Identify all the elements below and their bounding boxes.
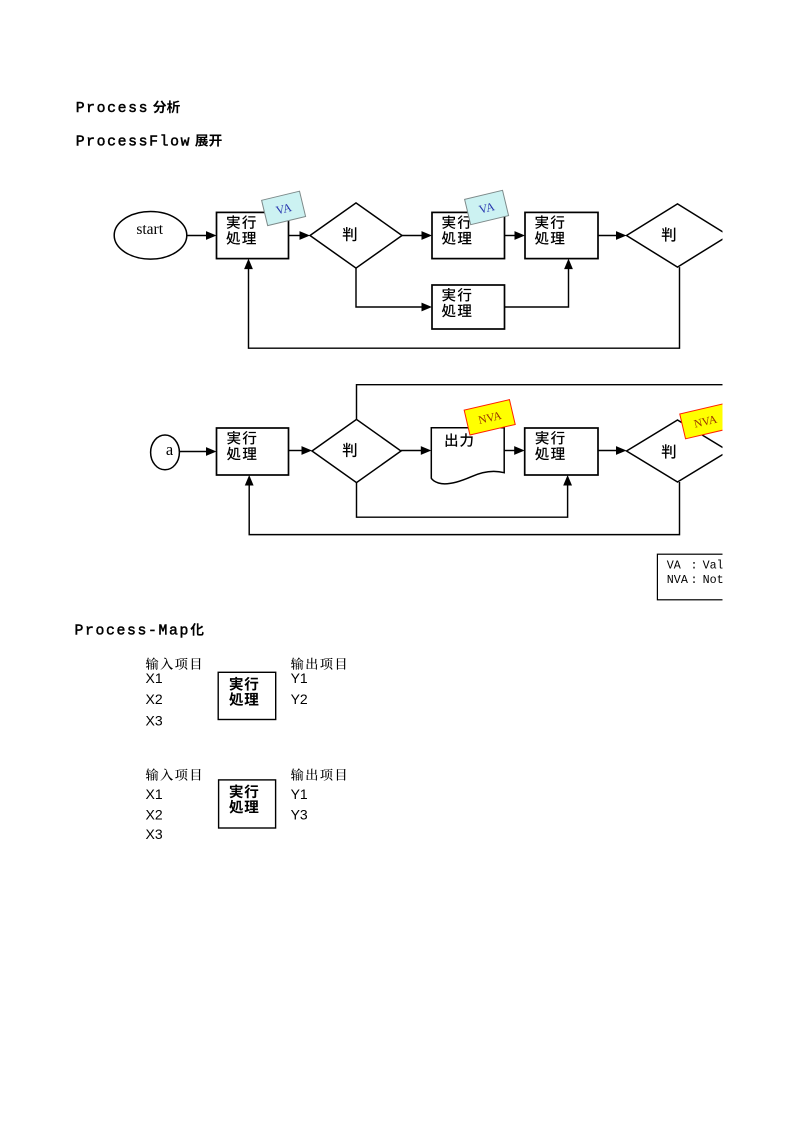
- wire D1 down to B4 with arrow: [356, 268, 432, 311]
- svg-text:Y1: Y1: [291, 786, 308, 802]
- svg-text:start: start: [136, 221, 163, 238]
- map process box 実行処理: [219, 780, 276, 828]
- decision D1 判: [310, 203, 402, 268]
- svg-text:NVA: NVA: [667, 573, 689, 587]
- map process box 実行処理: [218, 672, 276, 719]
- note NVA on document: [464, 400, 515, 435]
- svg-text:Not Value Added: Not Value Added: [703, 573, 793, 587]
- svg-text:VA: VA: [667, 558, 682, 572]
- svg-text::: :: [691, 573, 698, 587]
- decision D4 判 (clipped): [627, 420, 729, 482]
- wire D3 to document with arrow: [401, 446, 431, 455]
- note VA on B2: [465, 190, 509, 224]
- svg-text:Y3: Y3: [291, 807, 308, 823]
- label 输出项目: [291, 657, 346, 669]
- label 输入项目: [146, 768, 201, 780]
- svg-text:X1: X1: [146, 670, 163, 686]
- note NVA on D4 (clipped): [680, 403, 731, 438]
- svg-text:Y1: Y1: [291, 670, 308, 686]
- wire D3 bottom to B6 bottom with arrow: [357, 475, 573, 517]
- svg-text:X2: X2: [146, 807, 163, 823]
- title Process-Map化: [75, 623, 204, 639]
- svg-text::: :: [691, 558, 698, 572]
- feedback wire D4 bottom to B5 bottom with arrow: [245, 475, 680, 535]
- process box B6 実行処理: [525, 428, 598, 475]
- svg-text:ProcessFlow: ProcessFlow: [76, 134, 192, 150]
- label 输入项目: [146, 657, 201, 669]
- wire B1 to D1 with arrow: [289, 231, 311, 240]
- svg-text:a: a: [166, 440, 174, 459]
- process box B4 実行処理: [432, 285, 505, 329]
- wire B3 to D2 with arrow: [598, 231, 627, 240]
- bypass wire D3 top right (clipped): [357, 385, 723, 420]
- process box B5 実行処理: [217, 428, 289, 475]
- process box B2 実行処理: [432, 212, 505, 258]
- output items: [291, 786, 308, 823]
- wire B6 to D4 with arrow: [598, 446, 627, 455]
- svg-text:Process: Process: [76, 101, 150, 117]
- svg-text:X1: X1: [146, 786, 163, 802]
- wire B4 up into B3 with arrow: [505, 259, 573, 307]
- legend box (clipped): [657, 554, 793, 600]
- input items X1 X2 X3: [146, 670, 163, 728]
- input items X1 X2 X3: [146, 786, 163, 842]
- decision D2 判 (clipped): [627, 204, 729, 267]
- output items: [291, 670, 308, 707]
- note VA on B1: [262, 191, 306, 225]
- title ProcessFlow展开: [76, 134, 222, 150]
- wire document to B6 with arrow: [504, 446, 525, 455]
- svg-text:Y2: Y2: [291, 691, 308, 707]
- terminator a (small ellipse): [151, 435, 180, 470]
- svg-text:X3: X3: [146, 712, 163, 728]
- wire D1 to B2 with arrow: [402, 231, 432, 240]
- wire B2 to B3 with arrow: [505, 231, 526, 240]
- wire B5 to D3 with arrow: [289, 446, 313, 455]
- process box B3 実行処理: [525, 212, 598, 258]
- svg-text:X3: X3: [146, 826, 163, 842]
- svg-text:X2: X2: [146, 691, 163, 707]
- terminator start (ellipse): [114, 212, 187, 260]
- svg-text:Value Added: Value Added: [703, 558, 780, 572]
- wire a to B5 with arrow: [179, 447, 216, 456]
- document shape 出力: [431, 428, 504, 484]
- wire start to B1 with arrow: [187, 231, 217, 240]
- svg-text:Process-Map: Process-Map: [75, 624, 191, 640]
- process box B1 実行処理: [217, 212, 289, 258]
- label 输出项目: [291, 768, 346, 780]
- feedback wire D2 bottom to B1 bottom with arrow: [244, 259, 679, 349]
- title Process分析: [76, 100, 180, 117]
- decision D3 判: [312, 419, 401, 482]
